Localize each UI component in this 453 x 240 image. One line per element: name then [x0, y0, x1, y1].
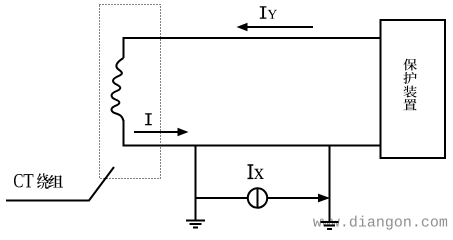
label IY: I: [260, 6, 267, 19]
wire: IX branch right segment with arrow: [267, 197, 319, 199]
inductor: CT secondary winding (hand-drawn coil): [112, 58, 124, 121]
current source IX (circle with bar): [248, 188, 267, 207]
label 装: [403, 86, 416, 98]
label Ix: I: [248, 164, 254, 179]
label CT: C: [14, 174, 23, 187]
wire: top horizontal from CT to protection box: [124, 37, 381, 39]
wire: middle horizontal to protection box: [123, 145, 381, 147]
ground (left): [186, 221, 205, 228]
protection device box: [381, 20, 446, 158]
current arrow IY (leftward): [246, 26, 313, 28]
label 置: [403, 99, 416, 110]
current arrow I (rightward): [134, 131, 179, 133]
wire: vertical drop to ground (right): [329, 146, 331, 221]
label 护: [403, 72, 416, 84]
wire: IX branch left segment: [196, 197, 249, 199]
label CT: T: [24, 174, 34, 187]
label Ix: x: [254, 169, 264, 179]
label I: [145, 113, 152, 125]
label 绕: [37, 173, 49, 189]
label IY: Y: [268, 10, 277, 19]
wire: vertical from top wire down to winding: [123, 37, 125, 58]
wire: vertical drop to ground (left): [195, 146, 197, 220]
watermark www.diangon.com: [313, 216, 447, 230]
wire: vertical below winding: [123, 120, 125, 145]
label 保: [403, 59, 417, 71]
callout line to CT winding: [6, 167, 114, 201]
ground (right): [321, 222, 339, 229]
CT winding enclosure (dotted box): [100, 5, 161, 179]
label 组: [49, 175, 64, 188]
